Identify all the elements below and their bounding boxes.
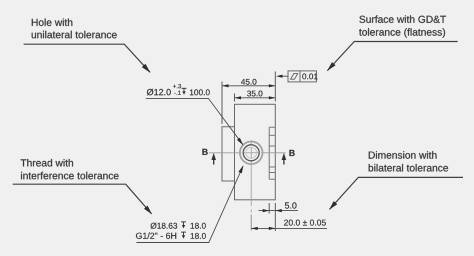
centerline vertical xyxy=(250,140,252,212)
label: hole with unilateral tolerance xyxy=(32,19,117,39)
label: surface with GD&T tolerance (flatness) xyxy=(359,15,446,37)
leader for dimension label xyxy=(330,177,464,209)
part: right groove strip xyxy=(269,127,275,179)
part: main body front view xyxy=(235,104,276,200)
dimension 35.0 xyxy=(235,72,276,102)
dimension 5.0 xyxy=(259,203,299,214)
flatness frame leader xyxy=(281,75,288,77)
flatness symbol xyxy=(291,74,298,80)
depth symbol in thread note line 2 xyxy=(181,232,186,236)
centerline horizontal xyxy=(209,152,286,154)
leader for thread label xyxy=(13,184,152,214)
flatness feature control frame xyxy=(288,71,316,82)
depth symbol in hole note xyxy=(182,88,187,92)
section arrow B right xyxy=(282,150,295,165)
leader for surface label xyxy=(327,42,457,71)
hole note leader xyxy=(146,98,243,144)
thread note: dia 18.63 depth 18.0 / G1/2-6H depth 18.0 xyxy=(136,223,206,239)
label: thread with interference tolerance xyxy=(21,159,119,179)
section arrow B left xyxy=(202,149,216,165)
part: left boss xyxy=(222,127,235,181)
leader for hole label xyxy=(24,44,150,72)
label: dimension with bilateral tolerance xyxy=(369,151,448,171)
hole circle xyxy=(243,145,259,161)
hole note: dia 12.0 +.3/-.1 depth 100.0 xyxy=(147,84,210,95)
dimension 20.0 plus-minus 0.05 xyxy=(251,203,327,231)
depth symbol in thread note line 1 xyxy=(181,222,186,226)
chamfer circle xyxy=(246,147,257,158)
extension line from centerline for 20.0 dim xyxy=(250,215,252,231)
dimension 45.0 xyxy=(222,82,275,125)
thread circle outer xyxy=(240,142,263,165)
thread note leader xyxy=(136,166,243,243)
